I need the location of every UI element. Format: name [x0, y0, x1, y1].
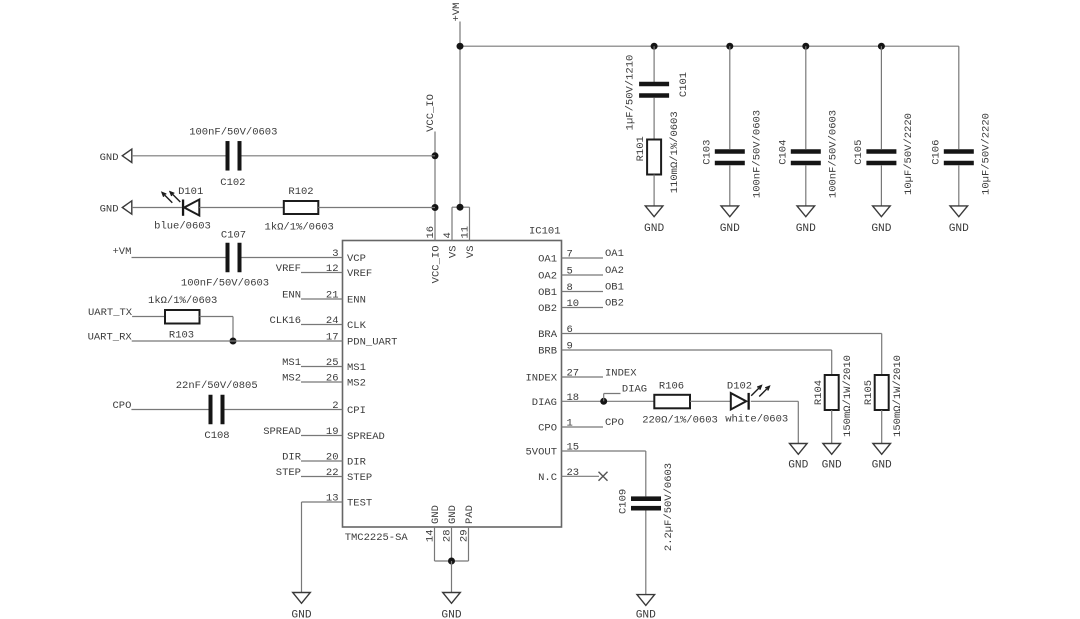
- svg-text:VCC_IO: VCC_IO: [425, 94, 437, 132]
- svg-text:C101: C101: [678, 72, 690, 97]
- svg-text:1: 1: [567, 418, 573, 430]
- svg-text:150mΩ/1W/2010: 150mΩ/1W/2010: [842, 355, 854, 437]
- svg-text:MS2: MS2: [347, 378, 366, 390]
- svg-text:VS: VS: [465, 246, 477, 259]
- svg-text:110mΩ/1%/0603: 110mΩ/1%/0603: [669, 111, 681, 193]
- svg-text:27: 27: [567, 368, 580, 380]
- svg-text:C104: C104: [778, 140, 790, 165]
- svg-text:GND: GND: [949, 223, 969, 235]
- svg-text:1kΩ/1%/0603: 1kΩ/1%/0603: [265, 222, 334, 234]
- svg-text:12: 12: [326, 263, 339, 275]
- svg-text:OB1: OB1: [538, 287, 557, 299]
- svg-text:2.2µF/50V/0603: 2.2µF/50V/0603: [663, 463, 675, 551]
- svg-text:D101: D101: [178, 186, 203, 198]
- svg-text:GND: GND: [872, 460, 892, 472]
- svg-text:5VOUT: 5VOUT: [525, 447, 557, 459]
- svg-text:OA2: OA2: [538, 271, 557, 283]
- svg-text:100nF/50V/0603: 100nF/50V/0603: [752, 110, 764, 198]
- svg-text:18: 18: [567, 392, 580, 404]
- svg-text:GND: GND: [447, 505, 459, 524]
- svg-text:white/0603: white/0603: [725, 414, 788, 426]
- svg-text:R102: R102: [288, 186, 313, 198]
- svg-text:10µF/50V/2220: 10µF/50V/2220: [903, 113, 915, 195]
- svg-text:C102: C102: [220, 177, 245, 189]
- svg-text:1µF/50V/1210: 1µF/50V/1210: [624, 55, 636, 131]
- svg-text:150mΩ/1W/2010: 150mΩ/1W/2010: [892, 355, 904, 437]
- svg-text:26: 26: [326, 373, 339, 385]
- svg-text:22nF/50V/0805: 22nF/50V/0805: [176, 380, 258, 392]
- svg-text:GND: GND: [636, 610, 656, 619]
- svg-text:20: 20: [326, 452, 339, 464]
- svg-text:100nF/50V/0603: 100nF/50V/0603: [181, 278, 269, 290]
- svg-text:DIR: DIR: [347, 457, 367, 469]
- svg-text:BRA: BRA: [538, 329, 558, 341]
- svg-text:DIAG: DIAG: [622, 384, 647, 396]
- svg-text:1kΩ/1%/0603: 1kΩ/1%/0603: [148, 295, 217, 307]
- svg-text:9: 9: [567, 341, 573, 353]
- svg-text:8: 8: [567, 282, 573, 294]
- svg-text:100nF/50V/0603: 100nF/50V/0603: [828, 110, 840, 198]
- svg-text:17: 17: [326, 332, 339, 344]
- svg-text:MS2: MS2: [282, 373, 301, 385]
- svg-text:GND: GND: [291, 610, 311, 619]
- svg-text:CPO: CPO: [605, 417, 624, 429]
- svg-text:INDEX: INDEX: [605, 368, 637, 380]
- svg-text:UART_RX: UART_RX: [88, 332, 133, 344]
- svg-text:STEP: STEP: [276, 467, 301, 479]
- svg-text:MS1: MS1: [282, 357, 301, 369]
- svg-text:SPREAD: SPREAD: [263, 426, 301, 438]
- svg-text:100nF/50V/0603: 100nF/50V/0603: [189, 127, 277, 139]
- svg-text:CLK16: CLK16: [269, 315, 301, 327]
- svg-text:TEST: TEST: [347, 498, 372, 510]
- svg-text:C106: C106: [931, 140, 943, 165]
- svg-text:CPI: CPI: [347, 405, 366, 417]
- svg-text:STEP: STEP: [347, 472, 372, 484]
- svg-text:CPO: CPO: [112, 400, 131, 412]
- svg-text:OA2: OA2: [605, 265, 624, 277]
- svg-text:GND: GND: [100, 152, 119, 164]
- svg-text:PAD: PAD: [464, 505, 476, 524]
- svg-text:CLK: CLK: [347, 320, 367, 332]
- svg-text:19: 19: [326, 426, 339, 438]
- svg-text:C108: C108: [204, 430, 229, 442]
- svg-text:OA1: OA1: [538, 254, 557, 266]
- svg-text:GND: GND: [644, 223, 664, 235]
- svg-text:GND: GND: [720, 223, 740, 235]
- svg-text:R105: R105: [863, 380, 875, 405]
- svg-text:22: 22: [326, 467, 339, 479]
- svg-text:ENN: ENN: [282, 290, 301, 302]
- svg-text:MS1: MS1: [347, 362, 366, 374]
- svg-text:GND: GND: [441, 610, 461, 619]
- svg-text:D102: D102: [727, 381, 752, 393]
- svg-text:R103: R103: [169, 330, 194, 342]
- svg-text:10µF/50V/2220: 10µF/50V/2220: [981, 113, 993, 195]
- svg-text:GND: GND: [788, 460, 808, 472]
- svg-text:GND: GND: [871, 223, 891, 235]
- svg-text:GND: GND: [100, 204, 119, 216]
- svg-text:GND: GND: [430, 505, 442, 524]
- svg-text:C103: C103: [702, 140, 714, 165]
- svg-text:21: 21: [326, 290, 339, 302]
- svg-text:24: 24: [326, 315, 339, 327]
- svg-text:OB1: OB1: [605, 282, 624, 294]
- svg-text:C107: C107: [221, 230, 246, 242]
- svg-text:GND: GND: [796, 223, 816, 235]
- svg-text:blue/0603: blue/0603: [154, 221, 211, 233]
- svg-text:23: 23: [567, 467, 580, 479]
- svg-text:VREF: VREF: [347, 268, 372, 280]
- svg-text:OB2: OB2: [605, 298, 624, 310]
- svg-text:OB2: OB2: [538, 303, 557, 315]
- svg-text:DIAG: DIAG: [532, 397, 557, 409]
- svg-text:10: 10: [567, 298, 580, 310]
- svg-text:VREF: VREF: [276, 263, 301, 275]
- svg-text:5: 5: [567, 266, 573, 278]
- svg-text:13: 13: [326, 493, 339, 505]
- svg-text:ENN: ENN: [347, 295, 366, 307]
- svg-text:R106: R106: [659, 381, 684, 393]
- svg-text:GND: GND: [822, 460, 842, 472]
- svg-text:UART_TX: UART_TX: [88, 307, 133, 319]
- svg-text:R101: R101: [635, 136, 647, 161]
- svg-text:220Ω/1%/0603: 220Ω/1%/0603: [642, 415, 718, 427]
- svg-text:25: 25: [326, 357, 339, 369]
- svg-text:N.C: N.C: [538, 472, 557, 484]
- svg-text:INDEX: INDEX: [525, 373, 557, 385]
- svg-text:15: 15: [567, 442, 580, 454]
- svg-text:6: 6: [567, 324, 573, 336]
- svg-text:C109: C109: [617, 489, 629, 514]
- svg-text:+VM: +VM: [112, 246, 131, 258]
- svg-text:OA1: OA1: [605, 248, 624, 260]
- svg-text:BRB: BRB: [538, 346, 557, 358]
- svg-text:VCP: VCP: [347, 253, 366, 265]
- svg-text:R104: R104: [813, 380, 825, 405]
- svg-text:IC101: IC101: [529, 226, 561, 238]
- svg-text:PDN_UART: PDN_UART: [347, 337, 397, 349]
- svg-text:CPO: CPO: [538, 423, 557, 435]
- svg-text:VS: VS: [448, 246, 460, 259]
- svg-text:TMC2225-SA: TMC2225-SA: [345, 532, 409, 544]
- svg-text:VCC_IO: VCC_IO: [431, 246, 443, 284]
- svg-text:C105: C105: [853, 140, 865, 165]
- svg-text:DIR: DIR: [282, 452, 302, 464]
- svg-text:3: 3: [332, 248, 338, 260]
- svg-text:7: 7: [567, 249, 573, 261]
- svg-text:2: 2: [332, 400, 338, 412]
- svg-text:SPREAD: SPREAD: [347, 431, 385, 443]
- svg-text:+VM: +VM: [451, 3, 463, 22]
